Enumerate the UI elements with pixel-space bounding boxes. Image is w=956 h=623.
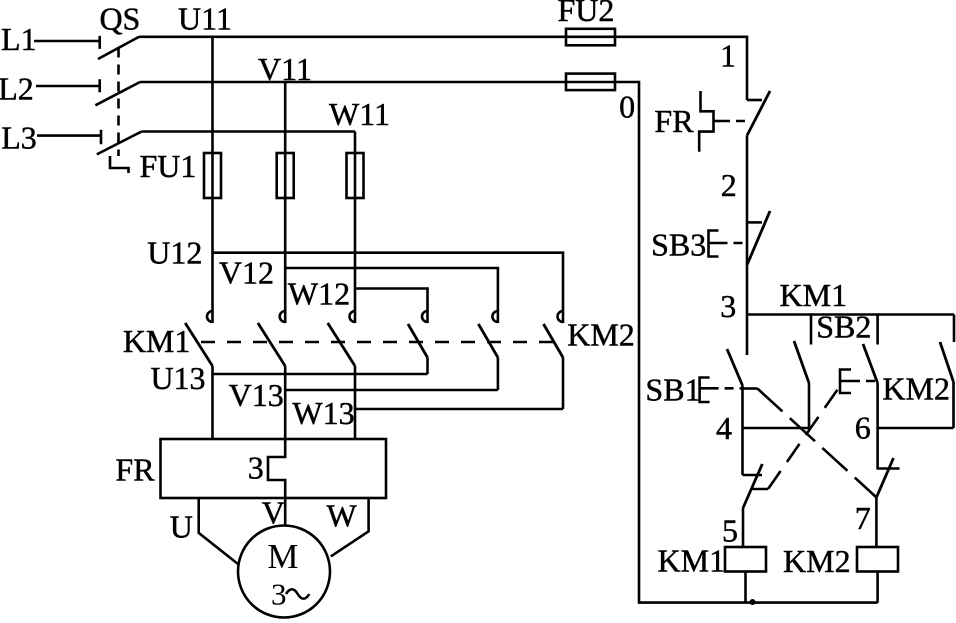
- svg-text:L2: L2: [0, 71, 34, 107]
- svg-text:U12: U12: [147, 235, 202, 271]
- svg-text:V12: V12: [219, 254, 274, 290]
- svg-text:6: 6: [855, 410, 871, 446]
- svg-text:KM1: KM1: [658, 543, 726, 579]
- svg-text:V: V: [262, 494, 285, 530]
- svg-text:KM2: KM2: [567, 317, 635, 353]
- svg-text:L1: L1: [1, 21, 37, 57]
- svg-text:KM1: KM1: [780, 277, 848, 313]
- svg-text:1: 1: [720, 38, 736, 74]
- svg-text:SB3: SB3: [651, 226, 706, 262]
- svg-text:U13: U13: [150, 360, 205, 396]
- svg-text:M: M: [267, 537, 298, 576]
- svg-text:KM1: KM1: [123, 323, 191, 359]
- svg-text:FR: FR: [654, 103, 694, 139]
- svg-text:FU1: FU1: [139, 148, 196, 184]
- svg-text:7: 7: [855, 500, 871, 536]
- svg-text:U: U: [170, 509, 193, 545]
- svg-text:FU2: FU2: [557, 0, 614, 28]
- svg-text:3: 3: [271, 576, 287, 611]
- svg-text:2: 2: [721, 167, 737, 203]
- svg-text:L3: L3: [1, 120, 37, 156]
- svg-text:W12: W12: [288, 276, 350, 312]
- svg-text:3: 3: [248, 450, 264, 486]
- svg-text:FR: FR: [115, 452, 155, 488]
- svg-text:SB1: SB1: [645, 372, 700, 408]
- svg-text:U11: U11: [178, 1, 232, 37]
- svg-text:KM2: KM2: [882, 371, 950, 407]
- svg-text:SB2: SB2: [816, 309, 871, 345]
- svg-text:V11: V11: [258, 51, 312, 87]
- svg-text:KM2: KM2: [783, 543, 851, 579]
- svg-text:0: 0: [619, 89, 635, 125]
- svg-text:W: W: [326, 498, 357, 534]
- svg-text:QS: QS: [99, 1, 140, 37]
- svg-text:3: 3: [720, 288, 736, 324]
- svg-text:4: 4: [716, 410, 732, 446]
- svg-text:W11: W11: [329, 96, 390, 132]
- svg-text:W13: W13: [292, 395, 354, 431]
- svg-text:V13: V13: [229, 377, 284, 413]
